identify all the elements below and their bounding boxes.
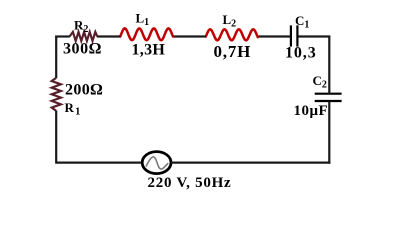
AC source circle <box>142 152 171 174</box>
resistor R1 <box>52 78 61 111</box>
wire right vertical top segment <box>328 37 330 95</box>
svg-text:C2: C2 <box>313 73 327 91</box>
wire right vertical bottom segment <box>328 101 330 164</box>
capacitor C2 <box>315 94 342 101</box>
svg-text:200Ω: 200Ω <box>65 82 103 99</box>
wire top from C1 right plate to right corner <box>297 35 330 37</box>
inductor L1 <box>120 28 173 40</box>
svg-text:10,3: 10,3 <box>285 45 317 62</box>
svg-text:10μF: 10μF <box>294 103 329 119</box>
svg-text:220 V, 50Hz: 220 V, 50Hz <box>148 175 232 191</box>
svg-text:L2: L2 <box>223 12 237 30</box>
wire top from left corner to R2 <box>55 35 70 37</box>
svg-text:R1: R1 <box>65 100 81 118</box>
wire left vertical bottom segment <box>55 111 57 163</box>
svg-text:1,3H: 1,3H <box>132 42 166 59</box>
wire top between R2 and L1 <box>97 35 120 37</box>
svg-text:R2: R2 <box>74 18 88 36</box>
resistor R2 <box>70 32 98 41</box>
wire top between L1 and L2 <box>173 35 206 37</box>
svg-text:C1: C1 <box>295 13 309 31</box>
AC source sine wave <box>146 157 168 169</box>
svg-text:0,7H: 0,7H <box>214 42 252 61</box>
svg-text:300Ω: 300Ω <box>63 41 102 58</box>
wire left vertical top segment <box>55 36 57 79</box>
wire bottom from left corner to AC source <box>55 162 143 164</box>
wire bottom from AC source to right corner <box>171 162 331 164</box>
AC source V1 <box>142 152 171 174</box>
inductor L2 <box>206 29 258 40</box>
wire top from L2 to C1 left plate <box>258 35 291 37</box>
svg-text:L1: L1 <box>136 10 150 28</box>
capacitor C1 <box>291 25 298 46</box>
